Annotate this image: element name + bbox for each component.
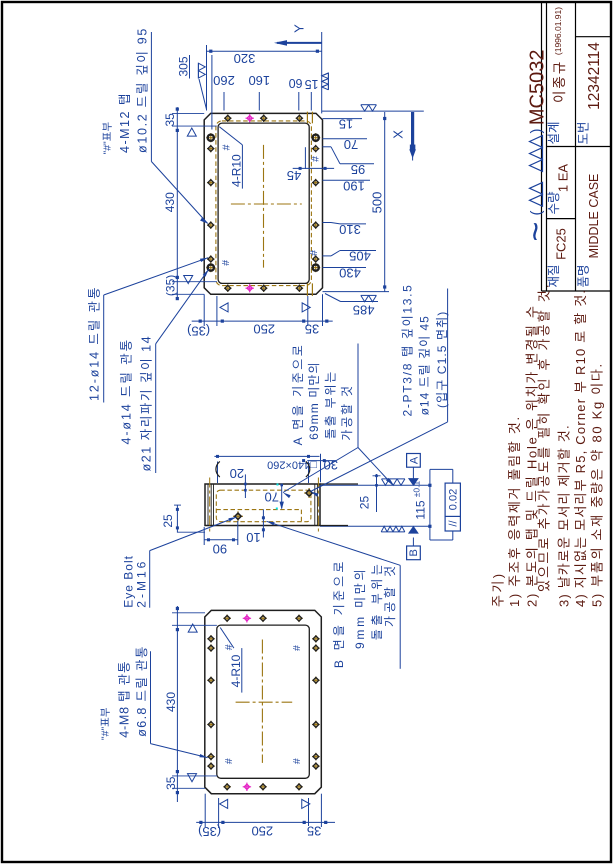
svg-text://: //	[448, 520, 460, 527]
svg-text:250: 250	[253, 321, 275, 336]
svg-text:2-PT3/8 탭 깊이13.5: 2-PT3/8 탭 깊이13.5	[401, 283, 415, 416]
svg-text:"#"표부: "#"표부	[99, 707, 111, 740]
svg-text:485: 485	[353, 302, 375, 317]
svg-text:10: 10	[246, 530, 260, 545]
svg-text:260: 260	[213, 73, 235, 88]
svg-text:9mm 미만의: 9mm 미만의	[353, 567, 367, 649]
svg-text:190: 190	[343, 178, 365, 193]
svg-text:70: 70	[265, 489, 279, 504]
svg-text:45: 45	[287, 168, 301, 183]
svg-text:#: #	[291, 758, 303, 764]
svg-text:가공할 것: 가공할 것	[340, 384, 354, 441]
svg-text:12342114: 12342114	[586, 42, 603, 110]
svg-text:35: 35	[305, 321, 319, 336]
svg-text:430: 430	[164, 692, 178, 712]
svg-text:4-ø14 드릴 관통: 4-ø14 드릴 관통	[119, 338, 133, 445]
svg-text:115: 115	[414, 500, 428, 519]
svg-text:500: 500	[370, 192, 385, 214]
svg-text:(: (	[528, 211, 545, 216]
svg-text:~: ~	[517, 222, 555, 242]
svg-text:#: #	[223, 758, 235, 764]
svg-text:"#"표부: "#"표부	[102, 122, 114, 155]
svg-text:95: 95	[351, 162, 365, 177]
svg-text:A 면을 기준으로: A 면을 기준으로	[291, 343, 305, 446]
svg-text:MIDDLE CASE: MIDDLE CASE	[587, 174, 601, 259]
svg-text:160: 160	[248, 73, 270, 88]
svg-text:#: #	[308, 250, 320, 256]
svg-text:(1996.01.91): (1996.01.91)	[553, 7, 563, 55]
svg-text:Y: Y	[292, 24, 307, 33]
svg-text:X: X	[391, 130, 406, 139]
svg-text:#: #	[291, 645, 303, 651]
svg-text:1 EA: 1 EA	[556, 164, 571, 193]
svg-text:3) 날카로운 모서리 제거할 것.: 3) 날카로운 모서리 제거할 것.	[556, 424, 571, 607]
svg-text:4-M12 탭: 4-M12 탭	[118, 92, 132, 153]
svg-text:25: 25	[161, 514, 175, 528]
svg-text:2-M16: 2-M16	[134, 559, 148, 608]
svg-text:4) 지시없는 모서리부 R5, Corner 부 R10: 4) 지시없는 모서리부 R5, Corner 부 R10 로 할 것.	[573, 289, 588, 607]
svg-text:430: 430	[163, 192, 177, 212]
svg-text:60: 60	[289, 76, 303, 90]
svg-text:(35): (35)	[187, 323, 210, 338]
svg-text:이종규: 이종규	[552, 60, 567, 103]
svg-text:4-M8 탭 관통: 4-M8 탭 관통	[118, 661, 132, 738]
svg-text:A: A	[408, 456, 420, 464]
svg-text:4-R10: 4-R10	[229, 154, 243, 187]
svg-text:1) 주조후 응력제거 풀림할 것.: 1) 주조후 응력제거 풀림할 것.	[507, 415, 522, 607]
svg-text:70: 70	[344, 137, 358, 152]
svg-text:310: 310	[339, 222, 361, 237]
svg-text:430: 430	[339, 265, 361, 280]
svg-text:#: #	[309, 156, 321, 162]
svg-text:20: 20	[230, 466, 244, 481]
svg-text:15: 15	[339, 117, 353, 132]
svg-text:있으므로 추가가공도를 필히 확인 후 가공할 것.: 있으므로 추가가공도를 필히 확인 후 가공할 것.	[537, 282, 552, 592]
svg-text:도번: 도번	[576, 121, 590, 144]
svg-text:405: 405	[349, 248, 371, 263]
svg-text:수량: 수량	[547, 191, 561, 215]
svg-text:B: B	[408, 549, 420, 556]
svg-text:4-R10: 4-R10	[229, 654, 243, 687]
svg-text:품명: 품명	[576, 264, 590, 287]
svg-text:90: 90	[213, 541, 227, 556]
svg-text:35: 35	[164, 776, 178, 790]
svg-text:B 면을 기준으로: B 면을 기준으로	[332, 558, 346, 668]
svg-text:12-ø14 드릴 관통: 12-ø14 드릴 관통	[88, 286, 102, 401]
svg-text:주기): 주기)	[491, 572, 506, 607]
svg-text:MC5032: MC5032	[527, 49, 549, 125]
svg-text:5) 부품의 소재 중량은 약 80 Kg 이다.: 5) 부품의 소재 중량은 약 80 Kg 이다.	[589, 362, 604, 607]
svg-text:#: #	[221, 144, 233, 150]
svg-text:35: 35	[163, 113, 177, 127]
svg-text:): )	[528, 129, 545, 134]
svg-text:FC25: FC25	[554, 228, 569, 260]
svg-text:ø14 드릴 깊이 45: ø14 드릴 깊이 45	[417, 315, 431, 415]
svg-text:320: 320	[234, 51, 256, 66]
svg-text:ø10.2 드릴 깊이 95: ø10.2 드릴 깊이 95	[136, 27, 150, 153]
svg-text:305: 305	[177, 56, 191, 76]
svg-text:설계: 설계	[547, 121, 561, 144]
svg-text:250: 250	[251, 823, 273, 838]
svg-text:가공할 것: 가공할 것	[383, 563, 397, 628]
svg-text:돌출 부위는: 돌출 부위는	[324, 370, 338, 439]
svg-text:ø6.8 드릴 관통: ø6.8 드릴 관통	[135, 645, 149, 736]
svg-text:ø21 자리파기 깊이 14: ø21 자리파기 깊이 14	[140, 335, 154, 472]
svg-text:(35): (35)	[164, 275, 178, 296]
svg-text:30: 30	[324, 458, 338, 473]
svg-text:35: 35	[307, 823, 321, 838]
svg-text:69mm 미만의: 69mm 미만의	[307, 361, 321, 440]
svg-text:15: 15	[305, 77, 319, 91]
svg-text:(35): (35)	[198, 824, 221, 839]
svg-text:Eye Bolt: Eye Bolt	[121, 555, 135, 608]
svg-text:0.02: 0.02	[448, 489, 460, 510]
svg-text:#: #	[220, 260, 232, 266]
svg-text:25: 25	[358, 496, 372, 510]
